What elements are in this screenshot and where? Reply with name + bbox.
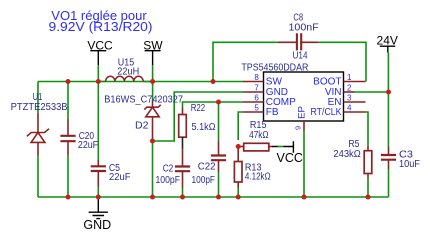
svg-text:5.1kΩ: 5.1kΩ: [192, 122, 216, 133]
wire: [218, 172, 220, 197]
svg-text:1: 1: [347, 73, 352, 82]
svg-text:TPS54560DDAR: TPS54560DDAR: [241, 62, 308, 73]
svg-text:7: 7: [254, 83, 259, 92]
wire: [387, 53, 389, 198]
node gnd-C20: [66, 195, 71, 200]
svg-text:FB: FB: [266, 107, 279, 118]
resistor R15: [238, 120, 272, 151]
svg-text:8: 8: [254, 73, 259, 82]
wire: [366, 112, 369, 197]
svg-text:D2: D2: [135, 121, 149, 132]
svg-text:22uH: 22uH: [117, 66, 139, 77]
node FB: [236, 144, 241, 149]
svg-text:VCC: VCC: [277, 151, 303, 165]
svg-text:EP: EP: [297, 106, 308, 119]
svg-text:243kΩ: 243kΩ: [333, 149, 361, 160]
op-amp U14 TPS54560DDAR body: [241, 51, 343, 121]
pin 9 EP: [294, 106, 308, 131]
svg-text:R22: R22: [191, 103, 206, 114]
svg-text:RT/CLK: RT/CLK: [311, 107, 342, 118]
svg-text:GND: GND: [83, 218, 111, 232]
pin 6 COMP: [243, 93, 296, 108]
zener diode U1: [11, 92, 68, 156]
svg-text:22uF: 22uF: [78, 140, 98, 151]
node gnd-EP: [302, 195, 307, 200]
svg-text:100pF: 100pF: [156, 175, 181, 186]
wire: [152, 65, 154, 101]
ground: [83, 197, 111, 232]
wire: [238, 112, 243, 140]
node gnd-C22: [216, 195, 221, 200]
schottky diode D2: [104, 95, 183, 142]
svg-text:9: 9: [294, 126, 303, 130]
node C8-rail: [211, 79, 216, 84]
wire: [38, 196, 389, 198]
wire: [183, 102, 244, 108]
node VCC-rail: [96, 79, 101, 84]
node gnd-R5: [366, 195, 371, 200]
wire: [278, 146, 284, 148]
node SW-rail: [150, 79, 155, 84]
pin 5 FB: [243, 103, 279, 118]
node gnd-C5: [96, 195, 101, 200]
pin 3 EN: [328, 93, 366, 108]
wire: [152, 141, 154, 197]
capacitor C8: [278, 13, 319, 51]
wire: [97, 82, 99, 198]
node gnd-R13: [236, 195, 241, 200]
inductor U15: [98, 58, 152, 82]
svg-text:47kΩ: 47kΩ: [249, 130, 269, 141]
wire: [97, 65, 99, 82]
svg-text:U14: U14: [293, 51, 308, 62]
resistor R22: [179, 103, 216, 149]
resistor R5: [333, 139, 371, 178]
pin 2 VIN: [325, 83, 355, 98]
svg-text:6: 6: [254, 93, 259, 102]
capacitor C20: [60, 119, 98, 155]
svg-text:5: 5: [254, 103, 259, 112]
node VIN: [386, 90, 391, 95]
capacitor C2: [156, 149, 191, 189]
wire: [153, 92, 244, 141]
node C20-rail: [66, 79, 71, 84]
node VO1 title: [49, 8, 153, 34]
svg-text:9.92V (R13/R20): 9.92V (R13/R20): [49, 19, 153, 34]
power flag VCC top: [87, 38, 113, 65]
svg-text:R5: R5: [348, 139, 359, 150]
svg-text:B16WS_C7420327: B16WS_C7420327: [104, 95, 183, 106]
pin 1 BOOT: [313, 73, 365, 88]
svg-text:C22: C22: [198, 162, 216, 173]
svg-text:3: 3: [347, 93, 352, 102]
svg-text:100nF: 100nF: [289, 22, 319, 33]
wire: [355, 91, 389, 93]
svg-text:2: 2: [347, 83, 352, 92]
node gnd-C2: [180, 195, 185, 200]
pin 7 GND: [243, 83, 288, 98]
capacitor C5: [91, 160, 131, 187]
resistor R13: [234, 147, 271, 189]
wire: [303, 131, 305, 197]
pin 8 SW: [243, 73, 282, 88]
wire: [67, 82, 69, 198]
svg-text:C2: C2: [163, 163, 174, 174]
power flag VCC mid: [272, 141, 303, 165]
node gnd-D2: [150, 195, 155, 200]
power flag 24V: [377, 34, 398, 53]
capacitor C3: [381, 147, 420, 170]
svg-text:4.12kΩ: 4.12kΩ: [245, 172, 271, 183]
capacitor C22: [192, 142, 227, 186]
wire: [182, 188, 184, 197]
node COMP: [216, 100, 221, 105]
svg-text:22uF: 22uF: [109, 172, 131, 183]
power flag SW top: [143, 38, 163, 65]
pin 4 RT/CLK: [311, 103, 366, 118]
svg-text:4: 4: [347, 103, 352, 112]
wire: [218, 102, 220, 142]
wire: [237, 188, 239, 197]
svg-text:100pF: 100pF: [192, 175, 216, 186]
wire: [37, 82, 39, 198]
wire: [38, 81, 243, 83]
svg-text:PTZTE2533B: PTZTE2533B: [11, 102, 68, 113]
svg-text:10uF: 10uF: [399, 159, 420, 170]
node D2-GND: [150, 139, 155, 144]
wire: [213, 42, 366, 81]
